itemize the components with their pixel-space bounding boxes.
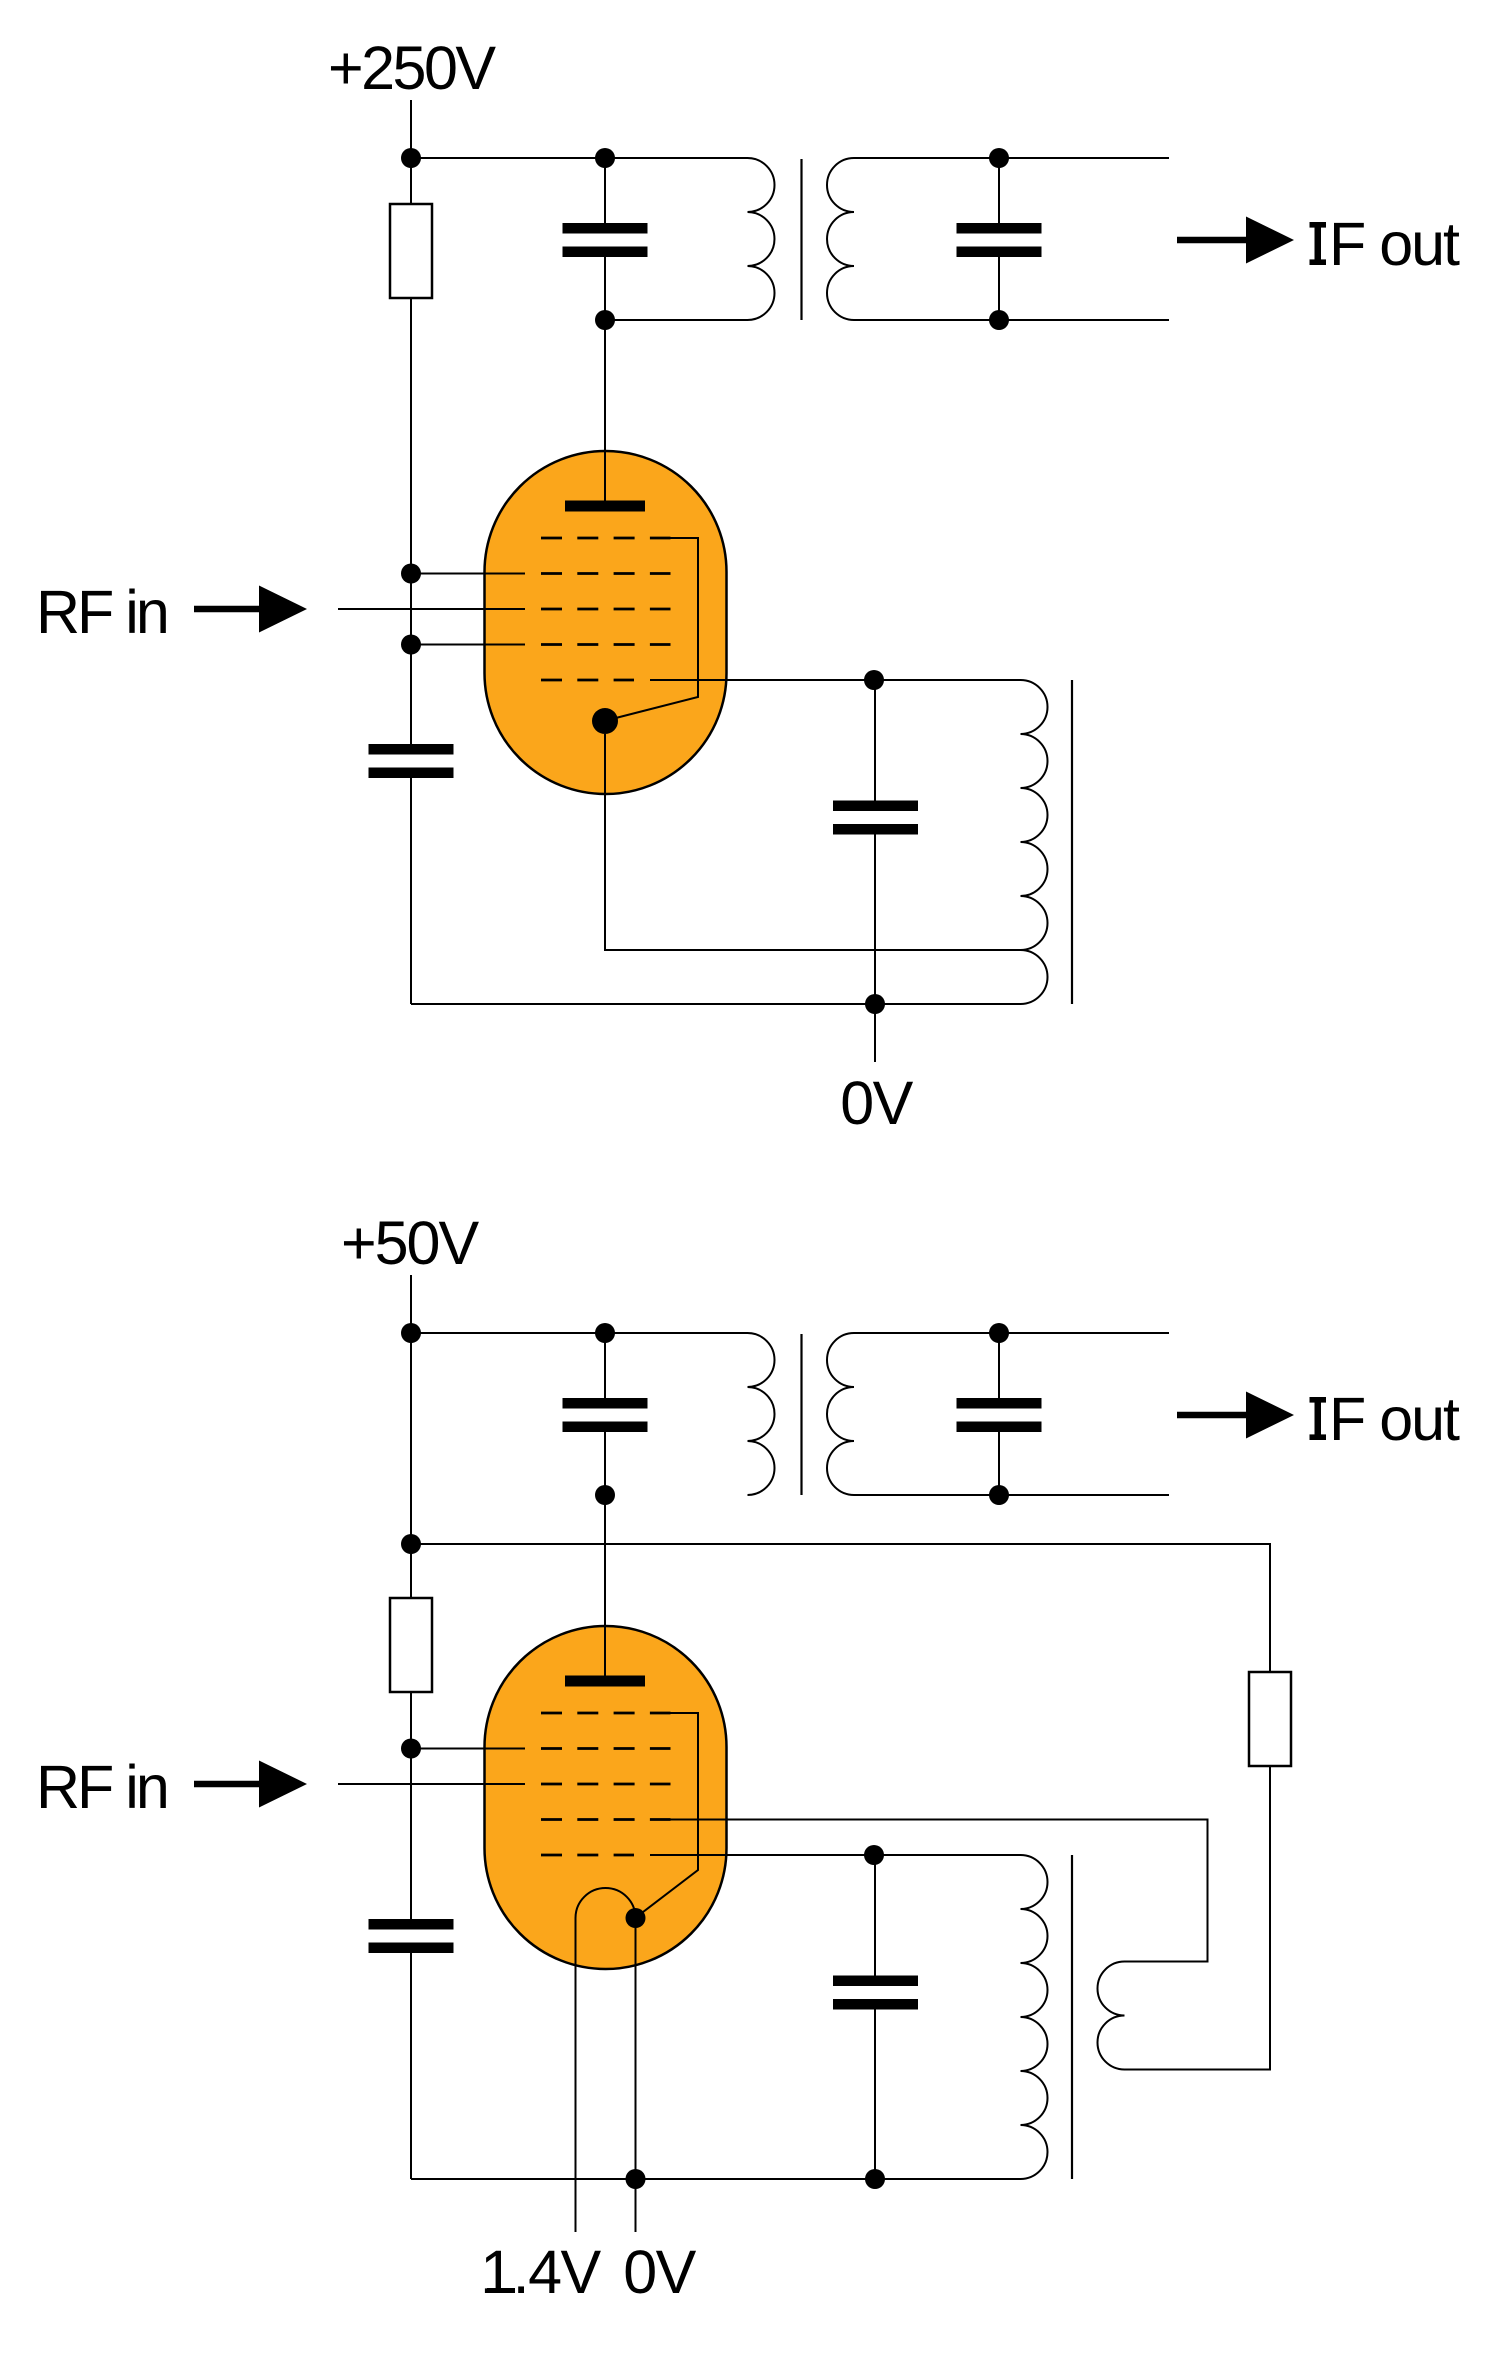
- inductor L5 IF transformer secondary: [827, 1333, 854, 1495]
- grid g4 row V2: [541, 1747, 671, 1750]
- svg-text:+50V: +50V: [341, 1209, 479, 1277]
- wire C4 top lead: [874, 680, 876, 801]
- wire left rail to screen junction: [410, 1333, 412, 1544]
- wire g4 lead: [411, 573, 525, 575]
- wire secondary top lead (2): [854, 1332, 1169, 1334]
- arrow RF in: [194, 606, 265, 613]
- wire cathode to oscillator tap: [605, 734, 1021, 950]
- svg-text:RF in: RF in: [36, 578, 167, 646]
- wire 0V stub: [874, 1004, 876, 1062]
- core oscillator slug (2): [1071, 1855, 1073, 2179]
- grid g5 row V1: [541, 537, 671, 540]
- capacitor C2 secondary tuning: [957, 223, 1042, 234]
- svg-text:0V: 0V: [840, 1069, 913, 1137]
- node primary top junction: [595, 148, 615, 168]
- wire g1 to oscillator coil: [650, 679, 1021, 681]
- node g2 junction: [401, 635, 421, 655]
- node primary bottom junction (2): [595, 1485, 615, 1505]
- wire left rail below C7: [410, 1953, 412, 2179]
- transformer T2 core: [800, 1334, 802, 1495]
- svg-text:F out: F out: [1329, 1385, 1460, 1453]
- inductor L3 oscillator coil: [1021, 680, 1048, 1004]
- wire cathode down lead: [635, 1918, 637, 2179]
- node cathode return junction: [626, 2169, 646, 2189]
- wire C1 bottom lead: [604, 257, 606, 320]
- wire +50V supply drop: [410, 1275, 412, 1333]
- grid g1 row V2: [541, 1854, 634, 1857]
- wire g4 lead (2): [411, 1748, 525, 1750]
- node primary top junction (2): [595, 1323, 615, 1343]
- wire top bus to transformer primary (2): [411, 1332, 748, 1334]
- node cathode V2: [626, 1908, 646, 1928]
- wire g2 feedback exit: [650, 1820, 1208, 1962]
- net IF out label (2): [1310, 1397, 1327, 1403]
- transformer T1 core: [800, 159, 802, 320]
- core oscillator slug: [1071, 680, 1073, 1004]
- wire anode lead: [604, 320, 606, 506]
- wire +250V supply drop: [410, 100, 412, 158]
- node oscillator bottom junction (2): [865, 2169, 885, 2189]
- wire C6 top lead: [998, 1333, 1000, 1398]
- node g4 junction (2): [401, 1739, 421, 1759]
- capacitor C6 secondary tuning: [957, 1398, 1042, 1409]
- capacitor C7 grid bypass: [369, 1919, 454, 1930]
- tube V2 heptode envelope: [485, 1626, 727, 1969]
- node secondary bottom junction (2): [989, 1485, 1009, 1505]
- svg-text:1.4V: 1.4V: [480, 2238, 601, 2306]
- net IF out label: [1310, 222, 1327, 228]
- wire g3 signal lead: [338, 608, 525, 610]
- inductor L1 IF transformer primary: [748, 158, 775, 320]
- capacitor C3 grid bypass: [369, 744, 454, 755]
- arrow RF in (2): [194, 1781, 265, 1788]
- wire g5 to cathode strap (2): [637, 1713, 699, 1917]
- inductor L7 feedback coil: [1098, 1962, 1125, 2070]
- filament heater hook V2: [576, 1888, 636, 2232]
- node oscillator top junction: [864, 670, 884, 690]
- inductor L6 oscillator coil: [1021, 1855, 1048, 2179]
- capacitor C8 oscillator tuning: [833, 1976, 918, 1987]
- capacitor C4 oscillator tuning: [833, 801, 918, 812]
- wire anode lead (2): [604, 1495, 606, 1681]
- resistor R1 anode load: [390, 204, 432, 298]
- node cathode V1: [592, 708, 618, 734]
- wire primary bottom lead: [605, 319, 748, 321]
- tube V1 heptode envelope: [485, 451, 727, 794]
- wire R2 bottom lead: [410, 1692, 412, 1919]
- wire C2 top lead: [998, 158, 1000, 223]
- inductor L2 IF transformer secondary: [827, 158, 854, 320]
- wire R1 bottom to grid junctions: [410, 298, 412, 744]
- node g4 junction: [401, 564, 421, 584]
- wire top bus to transformer primary: [411, 157, 748, 159]
- wire C8 bottom lead: [874, 2010, 876, 2180]
- wire C5 bottom lead: [604, 1432, 606, 1495]
- wire C5 top lead: [604, 1333, 606, 1398]
- grid g1 row V1: [541, 679, 634, 682]
- anode plate bar V2: [565, 1676, 645, 1687]
- wire C4 bottom lead: [874, 835, 876, 1005]
- wire bottom return bus (2): [411, 2178, 1021, 2180]
- grid g2 row V1: [541, 643, 671, 646]
- node secondary bottom junction: [989, 310, 1009, 330]
- wire feedback coil bottom to R2: [1125, 1766, 1271, 2070]
- wire 0V stub (2): [635, 2179, 637, 2232]
- wire secondary bottom lead (2): [854, 1494, 1169, 1496]
- wire C2 bottom lead: [998, 257, 1000, 320]
- wire g2 lead: [411, 644, 525, 646]
- wire secondary bottom lead: [854, 319, 1169, 321]
- arrow IF out: [1177, 237, 1252, 244]
- wire C8 top lead: [874, 1855, 876, 1976]
- wire left rail below C3: [410, 778, 412, 1004]
- wire R2 top lead: [410, 1544, 412, 1598]
- node oscillator top junction (2): [864, 1845, 884, 1865]
- resistor R3 feedback: [1249, 1672, 1291, 1766]
- resistor R2 grid bias: [390, 1598, 432, 1692]
- wire g1 to oscillator coil (2): [650, 1854, 1021, 1856]
- node secondary top junction: [989, 148, 1009, 168]
- wire bottom return bus: [411, 1003, 1021, 1005]
- grid g3 row V2: [541, 1783, 671, 1786]
- node supply junction: [401, 148, 421, 168]
- arrow IF out (2): [1177, 1412, 1252, 1419]
- grid g4 row V1: [541, 572, 671, 575]
- wire secondary top lead: [854, 157, 1169, 159]
- wire C1 top lead: [604, 158, 606, 223]
- grid g3 row V1: [541, 608, 671, 611]
- wire C6 bottom lead: [998, 1432, 1000, 1495]
- node 0V junction: [865, 994, 885, 1014]
- svg-text:+250V: +250V: [328, 34, 496, 102]
- wire R1 top lead: [410, 158, 412, 204]
- svg-text:RF in: RF in: [36, 1753, 167, 1821]
- wire g5 to cathode strap: [606, 538, 698, 721]
- node secondary top junction (2): [989, 1323, 1009, 1343]
- node supply junction (2): [401, 1323, 421, 1343]
- capacitor C1 primary tuning: [563, 223, 648, 234]
- grid g2 row V2: [541, 1818, 671, 1821]
- capacitor C5 primary tuning: [563, 1398, 648, 1409]
- svg-text:F out: F out: [1329, 210, 1460, 278]
- grid g5 row V2: [541, 1712, 671, 1715]
- wire g3 signal lead (2): [338, 1783, 525, 1785]
- inductor L4 IF transformer primary: [748, 1333, 775, 1495]
- wire screen feedback top run: [411, 1544, 1270, 1672]
- node screen feedback junction: [401, 1534, 421, 1554]
- node primary bottom junction: [595, 310, 615, 330]
- anode plate bar V1: [565, 501, 645, 512]
- svg-text:0V: 0V: [623, 2238, 696, 2306]
